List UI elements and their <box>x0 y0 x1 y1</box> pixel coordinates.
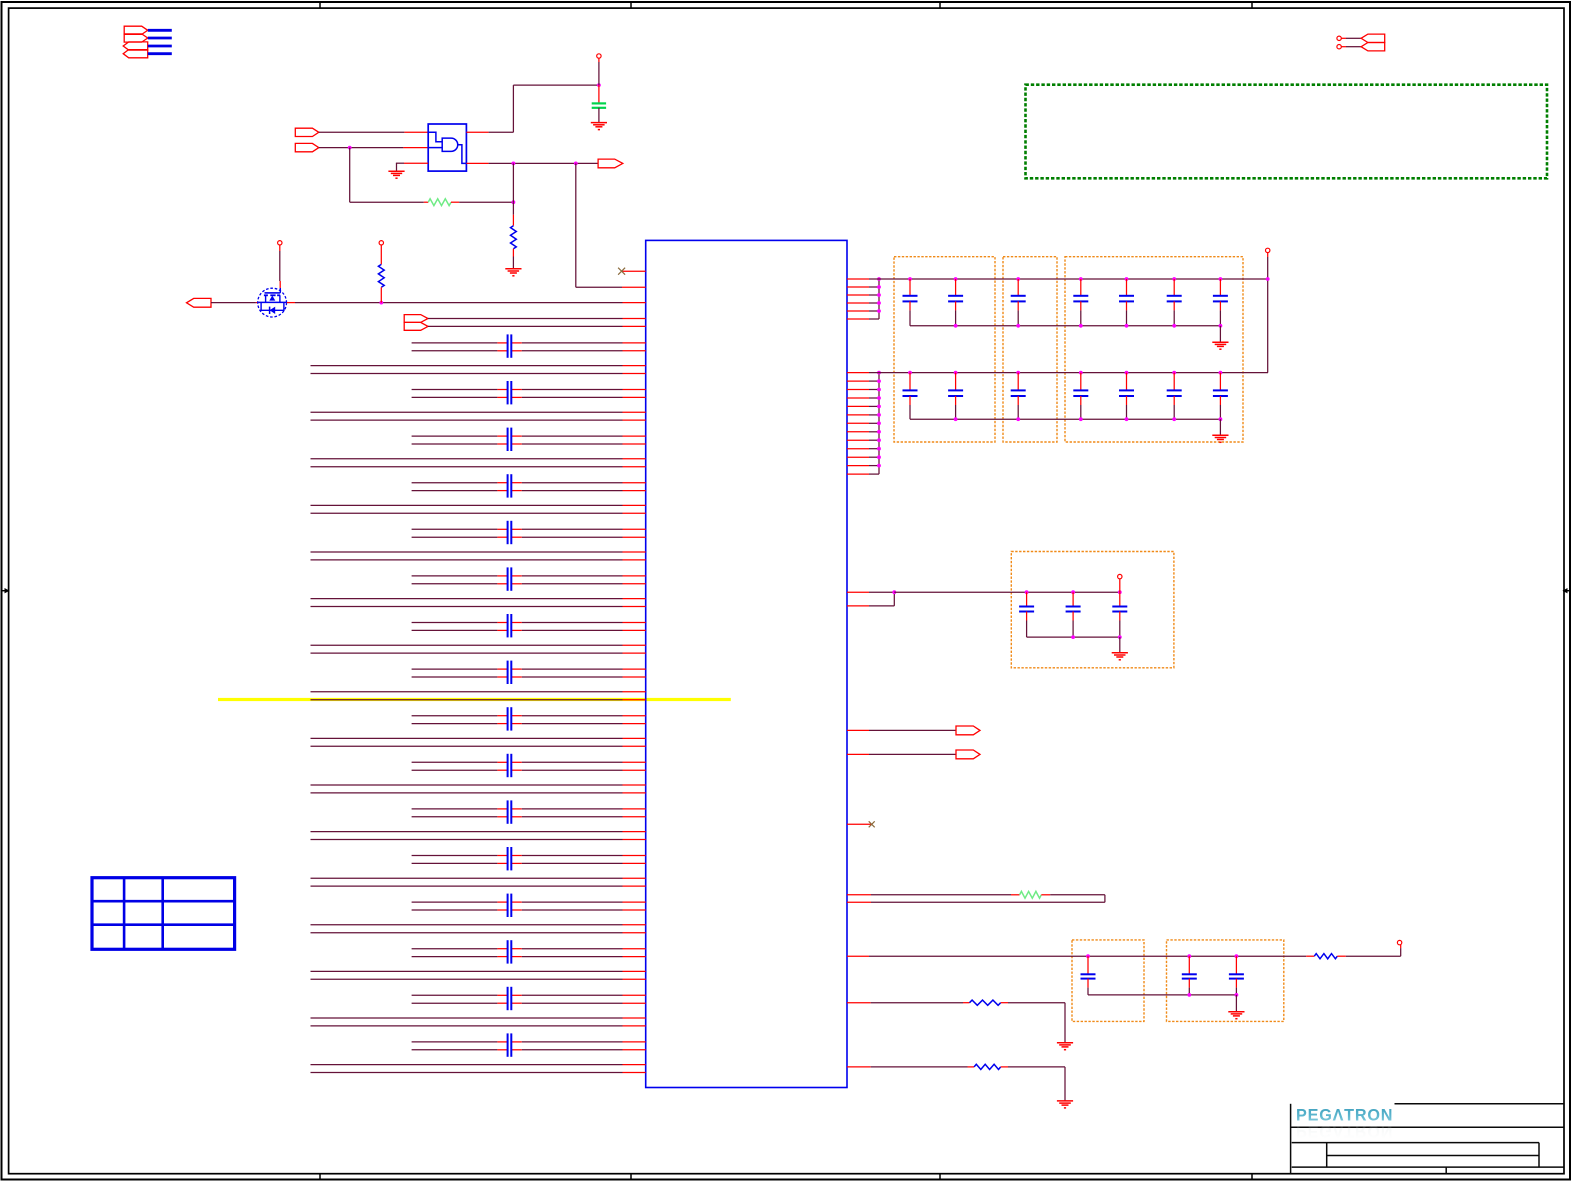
svg-text:PEGΛTRON: PEGΛTRON <box>1296 1122 1393 1140</box>
